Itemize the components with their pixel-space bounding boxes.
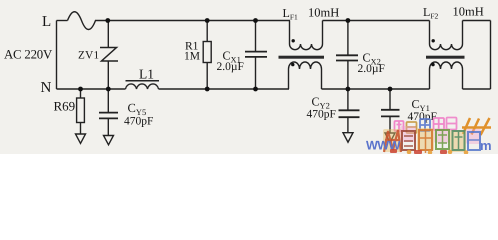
junction node CX1 bottom [253,87,258,92]
svg-text:R69: R69 [54,99,76,114]
output terminal right edge [490,21,492,90]
resistor R1 [203,21,211,90]
junction node CY1 bottom [388,87,393,92]
svg-text:10mH: 10mH [308,6,339,20]
node L input terminal [56,21,58,90]
capacitor CY5 470pF [99,89,118,136]
svg-text:470pF: 470pF [307,109,336,121]
core of choke LF2 [426,56,465,59]
wire top rail left [57,20,68,22]
wire top rail to choke LF1 [100,20,291,22]
polarity dot LF2 bottom [431,63,434,66]
svg-text:1M: 1M [184,51,200,63]
junction node CX2-CY2 bottom [346,87,351,92]
wire top rail right [463,20,491,22]
polarity dot LF1 bottom [291,63,294,66]
varistor ZV1 [100,21,118,90]
core of choke LF1 [279,56,325,59]
polarity dot LF2 top [432,39,435,42]
junction node R69 bottom [78,87,83,92]
wire bottom rail right [463,88,491,90]
ground (CY1) [385,133,395,143]
fuse F (sine squiggle) [68,12,100,30]
choke LF2 bottom winding [430,62,463,89]
junction node ZV1-CY5 bottom [106,87,111,92]
svg-text:2.0µF: 2.0µF [358,63,385,75]
ground (R69) [76,134,86,143]
junction node L-ZV1 [105,18,110,23]
capacitor CX2 2.0uF [336,21,358,90]
junction node R1 top [205,18,210,23]
junction node R1 bottom [205,87,210,92]
wire top rail between chokes [323,20,430,22]
wire bottom rail middle [159,88,290,90]
svg-text:L1: L1 [139,67,154,82]
wire bottom rail between chokes [322,88,430,90]
ground (CY5) [104,136,114,145]
svg-text:ZV1: ZV1 [78,50,99,62]
choke LF1 top winding [290,21,323,50]
svg-text:L: L [42,14,51,30]
svg-text:m: m [480,138,492,153]
inductor L1 [126,81,160,89]
junction node CX1 top [253,18,258,23]
ground (CY2) [343,133,353,143]
wire bottom rail left [57,88,126,90]
svg-text:2.0µF: 2.0µF [217,61,244,73]
svg-text:10mH: 10mH [453,5,484,19]
choke LF1 bottom winding [289,62,322,89]
polarity dot LF1 top [292,39,295,42]
capacitor CY1 470pF [381,89,400,133]
svg-text:N: N [41,80,52,96]
junction node CX2 top [346,18,351,23]
watermark [366,118,492,155]
capacitor CX1 2.0uF [245,21,267,90]
paper background [0,0,498,154]
capacitor CY2 470pF [339,89,360,133]
svg-text:AC 220V: AC 220V [4,48,53,62]
svg-text:470pF: 470pF [124,116,153,128]
resistor R69 [77,89,85,134]
choke LF2 top winding [430,21,463,50]
